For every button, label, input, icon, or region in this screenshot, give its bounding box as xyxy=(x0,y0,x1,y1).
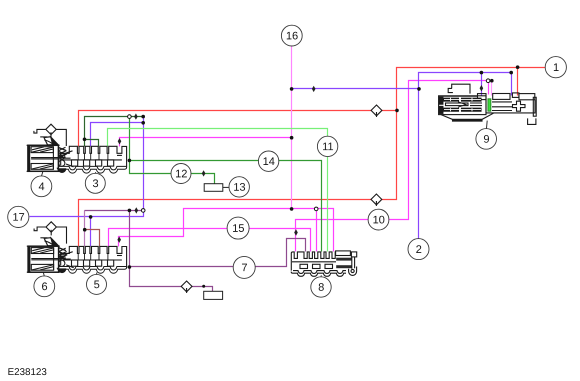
wire violet circle17 net xyxy=(30,117,144,217)
open junction plum wire end on violet vertical xyxy=(141,209,145,213)
wire violet drop to conn5 tooth xyxy=(90,217,92,247)
big splice diamond on red y199 xyxy=(371,194,382,206)
wire dark green conn3 xyxy=(85,117,144,147)
label 15 xyxy=(233,224,244,232)
label 17 xyxy=(13,213,24,221)
label 7 xyxy=(242,264,247,272)
junction violet drop to C5 xyxy=(89,215,93,219)
wire bright green conn3 to conn8 T6 through circle11 xyxy=(108,129,328,252)
leader to circle 8 xyxy=(320,275,322,277)
callout circle 2 xyxy=(408,239,429,260)
wire pink short drop at connector9 xyxy=(491,81,493,96)
junction plum to circle-7 wire xyxy=(128,265,132,269)
wire plum circle7 to conn8 T2 xyxy=(130,239,306,267)
splice marker on magenta drop at connector C5 xyxy=(117,237,121,243)
label 1 xyxy=(554,63,559,71)
connector C3 (comb connector) xyxy=(57,146,126,173)
junction dark green to violet vertical xyxy=(141,115,145,119)
middle/right body xyxy=(486,100,535,113)
junction violet link to circle-2 wire xyxy=(417,87,421,91)
junction violet wire drop 1 at C9 xyxy=(480,71,484,75)
callout circle 6 xyxy=(34,276,55,297)
wire magenta C circle15: conn5 tooth to conn8 T3 xyxy=(109,229,311,252)
wire violet circle2 net at connector9 xyxy=(419,73,512,239)
splice marker on dark green wire xyxy=(134,113,138,119)
junction plum branch down xyxy=(128,209,132,213)
wire plum conn5 tooth to open junction xyxy=(84,211,86,247)
wire magenta B: conn5 tooth to conn8 T7 xyxy=(119,209,334,252)
callout circle 16 xyxy=(281,25,302,46)
splice marker on magenta drop at connector C8 xyxy=(294,229,298,235)
bracket above xyxy=(452,84,470,93)
junction brown jog on plum drop xyxy=(83,228,87,232)
top tabs xyxy=(439,95,478,97)
junction violet link to pink wire xyxy=(290,87,294,91)
wire red branch to connector3 tooth xyxy=(79,111,397,147)
wire red main: circle1 to connector5 tooth xyxy=(79,68,546,247)
wire violet drop conn9 with splice xyxy=(481,73,483,96)
connector C4 assembly xyxy=(27,137,74,172)
diagram code E238123 xyxy=(8,368,46,375)
open junction green vertical on dark green wire xyxy=(128,115,132,119)
splice marker on violet drop at connector C9 xyxy=(480,85,484,91)
callout circle 14 xyxy=(258,151,278,171)
left end terminal details of comb xyxy=(59,148,67,159)
junction violet wire drop 2 at C9 xyxy=(509,71,513,75)
wire medium green circle14 to conn8 T5 xyxy=(130,161,322,252)
label 16 xyxy=(287,32,298,40)
bottom edge xyxy=(441,113,494,119)
junction violet C3 branch xyxy=(141,121,145,125)
junction red wire to connector C9 drop xyxy=(516,65,520,69)
wire violet link pink16 to circle2 vertical xyxy=(292,88,419,90)
connector C9 assembly xyxy=(439,84,537,128)
label 10 xyxy=(373,216,384,224)
callout circle 11 xyxy=(317,136,337,156)
pin dot before ground box xyxy=(202,285,205,288)
open junction magenta branch to C8 T4 xyxy=(314,207,318,211)
junction dark green jog xyxy=(83,138,87,142)
connector C5 (comb connector, same artwork) xyxy=(57,246,126,273)
ground box 13 xyxy=(204,184,223,192)
callout circle 8 xyxy=(311,277,331,297)
bottom-right bracket xyxy=(528,118,536,124)
splice marker on plum wire xyxy=(135,207,139,213)
junction pink wire end on magenta xyxy=(290,207,294,211)
wire magenta D circle10: conn9 pin to conn8 T1 xyxy=(296,81,489,252)
wire pink from circle16 down to magenta junction xyxy=(291,47,293,209)
splice diamond assembly above connector C6 xyxy=(34,222,66,244)
label 5 xyxy=(94,281,99,289)
funnel / terminal entry xyxy=(44,137,58,145)
label 6 xyxy=(42,282,47,290)
junction magenta C3 wire to pink wire xyxy=(290,136,294,140)
callout circle 15 xyxy=(227,217,249,239)
connector C8 (comb connector horizontal) xyxy=(291,251,356,277)
label 3 xyxy=(93,179,98,187)
label 2 xyxy=(416,245,421,253)
wire brown jog conn5 xyxy=(85,230,100,247)
label 12 xyxy=(176,170,187,178)
label 14 xyxy=(263,157,274,165)
callout circle 1 xyxy=(545,57,566,78)
open junction magenta drop at C9 xyxy=(486,79,490,83)
callout circle 7 xyxy=(233,256,255,278)
splice marker on magenta drop at connector C3 xyxy=(118,138,122,144)
callout circle 10 xyxy=(368,209,389,230)
label 13 xyxy=(234,183,245,191)
body xyxy=(28,145,59,171)
callout circle 3 xyxy=(85,173,105,193)
junction green circle-14 branch xyxy=(128,159,132,163)
open circle junctions xyxy=(128,79,490,212)
connector C6 assembly (same artwork) xyxy=(27,238,74,273)
callout circle 5 xyxy=(87,274,107,294)
big splice diamond on plum ground line xyxy=(181,281,192,293)
splice marker on green wire after circle 12 xyxy=(202,170,206,176)
splice diamond assembly above connector C4 xyxy=(34,124,66,146)
callout circle 17 xyxy=(8,206,29,227)
junction magenta wire pink drop at C9 xyxy=(490,79,494,83)
wire red drop into connector9 xyxy=(517,68,519,96)
right latch part xyxy=(336,251,351,256)
callout circle 13 xyxy=(229,177,249,197)
junction red wire branch to C3 xyxy=(395,109,399,113)
callout circle 4 xyxy=(31,176,52,197)
terminal jumble right of body xyxy=(58,147,67,157)
left cluster xyxy=(439,96,486,115)
label 4 xyxy=(39,183,45,191)
leader to circle 9 xyxy=(486,121,489,129)
wire dark green jog to second tooth xyxy=(85,140,99,147)
label 9 xyxy=(484,135,489,143)
callout circle 12 xyxy=(171,164,191,184)
ground box plum xyxy=(204,291,223,299)
small splice diamonds xyxy=(117,85,483,243)
wire violet conn3 tooth branch xyxy=(91,123,144,147)
leader lines to callouts xyxy=(42,171,97,275)
label 11 xyxy=(323,143,333,151)
wire plum down to ground box xyxy=(130,211,213,292)
wire medium green circle12 to ground box 13 xyxy=(130,117,215,184)
splice marker on violet link wire xyxy=(312,86,316,92)
big splice diamond on red y110 xyxy=(371,105,382,117)
wire magenta B branch down to conn8 T4 xyxy=(316,209,318,252)
label 8 xyxy=(319,283,324,291)
wire magenta connector3 branch xyxy=(120,138,292,147)
callout circle 9 xyxy=(476,129,497,150)
green internal bar xyxy=(488,99,491,111)
